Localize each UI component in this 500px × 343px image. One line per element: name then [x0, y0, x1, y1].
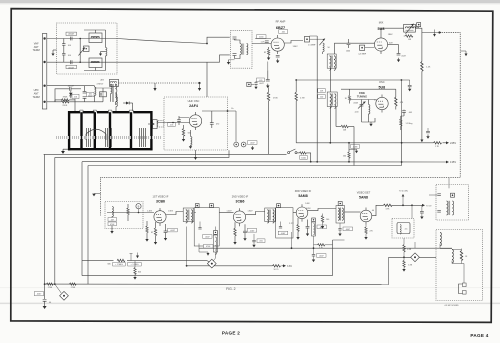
stub arrow under junction — [434, 30, 436, 35]
svg-text:220K: 220K — [62, 105, 67, 107]
UHF terminal dot lower — [43, 101, 45, 103]
wire plate t3 — [308, 209, 336, 211]
svg-text:500V: 500V — [88, 96, 93, 98]
mixer plate coil box — [404, 24, 419, 32]
wire UHF terminal bottom — [47, 101, 61, 103]
svg-text:4-30: 4-30 — [355, 111, 359, 113]
bus line 135V — [82, 161, 446, 163]
label TO 4.5MC arrow up — [402, 197, 404, 206]
svg-text:.0047: .0047 — [401, 55, 406, 57]
arrow stub x135 — [137, 253, 139, 256]
RF transformer primary coil — [240, 44, 241, 55]
svg-text:.00047: .00047 — [67, 86, 74, 88]
svg-text:1.5 MMF: 1.5 MMF — [308, 44, 316, 46]
electrolytic on bus — [253, 234, 255, 240]
wire plate t1 — [166, 212, 183, 215]
wire tuner to UHF osc — [157, 122, 189, 124]
svg-text:TERM: TERM — [33, 49, 40, 52]
cathode cap — [276, 56, 280, 58]
B+ bus 245V — [296, 142, 433, 144]
resistor 270K b — [70, 283, 77, 285]
tall dashed box sound IF — [436, 230, 483, 301]
boxed label .0047 bottom — [34, 292, 44, 296]
ground UHF osc — [189, 145, 192, 149]
sound coil 2 — [452, 201, 453, 215]
svg-text:1.80V: 1.80V — [248, 211, 254, 213]
injection box — [360, 45, 365, 50]
wire bottom jog to RF transformer — [207, 55, 230, 62]
svg-text:2AF4: 2AF4 — [189, 104, 198, 108]
label slug — [204, 244, 214, 248]
svg-text:TO V2: TO V2 — [426, 206, 431, 208]
AGC resistor — [127, 208, 129, 215]
resistor inline AGC bus — [273, 265, 281, 267]
svg-text:PAGE 2: PAGE 2 — [222, 330, 240, 335]
balun divider cap upper — [63, 39, 65, 44]
label .0047 t2 — [247, 229, 256, 233]
slug return x314 with cap — [313, 236, 315, 255]
det load resistor — [383, 204, 392, 206]
tuning shaft gray band — [56, 136, 161, 139]
svg-text:TUNING: TUNING — [357, 94, 367, 98]
svg-text:4 SECT: 4 SECT — [97, 83, 105, 85]
svg-text:470K: 470K — [110, 224, 115, 226]
svg-text:100: 100 — [326, 219, 329, 221]
arrow into connector — [148, 123, 152, 125]
AGC bus 3.6V — [187, 265, 273, 267]
marker square T1 — [195, 204, 199, 208]
trap dashed box 4.5MC — [392, 219, 414, 239]
neutralizing box — [305, 36, 310, 42]
marker square grid feed — [247, 82, 251, 86]
VHF terminal dot lower — [43, 61, 45, 63]
svg-text:.0047: .0047 — [250, 230, 255, 232]
cap .005 osc — [402, 111, 406, 113]
wire balun internal lower — [95, 68, 97, 71]
det peaking cap — [420, 212, 424, 214]
svg-text:1.80V: 1.80V — [168, 210, 174, 212]
UHF mixer coil — [95, 87, 96, 95]
bus line 1 with corner — [44, 153, 287, 155]
stub up x124 — [130, 254, 132, 261]
svg-text:5AM8: 5AM8 — [298, 194, 307, 198]
wire plate RF — [284, 41, 303, 44]
mixer grid cap — [347, 43, 351, 45]
AGC cap boxed label — [108, 218, 117, 222]
svg-text:.0068: .0068 — [353, 102, 358, 104]
svg-text:.0047: .0047 — [319, 255, 324, 257]
svg-text:100Ω: 100Ω — [301, 158, 306, 160]
svg-text:UHF OSC: UHF OSC — [188, 99, 200, 103]
tuner right connector — [153, 120, 158, 129]
tube V6 second IF — [233, 208, 245, 226]
transformer terminal caps — [233, 36, 237, 38]
resistor 820 below AGC line — [134, 261, 136, 268]
bottom left cluster wire — [45, 283, 389, 286]
resistor 220K UHF — [61, 101, 69, 103]
cathode res t3 — [297, 225, 299, 232]
svg-text:270K: 270K — [71, 287, 76, 289]
ground transformer — [227, 60, 230, 65]
cap label 10 1000 left — [257, 35, 267, 39]
svg-text:2.2V: 2.2V — [289, 223, 294, 225]
resistor 2.7M vertical — [295, 92, 297, 101]
mixer cathode cap .0047 — [397, 54, 401, 56]
svg-text:.005: .005 — [408, 112, 412, 114]
svg-text:3CB6: 3CB6 — [236, 199, 245, 203]
diagonal to diamond lower — [55, 284, 61, 293]
svg-text:140V: 140V — [305, 203, 310, 205]
plate coil RF — [323, 43, 324, 52]
resistor 56K inline — [117, 259, 125, 261]
ground trap return — [402, 269, 405, 272]
svg-text:.0047: .0047 — [170, 230, 175, 232]
resistor 390K above tuner — [62, 99, 70, 101]
svg-text:100: 100 — [68, 55, 71, 57]
svg-text:.00047: .00047 — [68, 33, 75, 35]
svg-text:390K: 390K — [63, 97, 68, 99]
scan artifact gray line lower — [0, 303, 500, 305]
tuner gang capacitor plates 1 — [87, 128, 91, 147]
scan artifact faint line upper — [0, 286, 500, 289]
vertical with resistor 1.5K — [421, 33, 423, 62]
svg-text:820: 820 — [138, 272, 141, 274]
wire UHF osc plate out — [202, 110, 236, 112]
mechanical gang dotted link — [119, 82, 200, 84]
sound takeoff line to page 4 — [389, 256, 436, 258]
capacitor C2 on bottom wire — [66, 60, 77, 68]
svg-text:MIX: MIX — [379, 20, 384, 24]
resistor beside slug — [322, 214, 324, 216]
vertical x401 — [401, 116, 403, 166]
shield dotted line right vertical — [459, 33, 461, 178]
resistor 82 cathode — [267, 49, 269, 55]
wire balun internal upper — [95, 30, 97, 33]
AGC dashed box — [105, 202, 143, 229]
wire row B — [296, 79, 410, 81]
vertical to connector — [462, 264, 465, 284]
screen cap t3 — [306, 227, 310, 229]
tuner terminal notches — [80, 110, 133, 112]
trimmer arrow — [319, 39, 325, 46]
tube V7 third IF — [296, 204, 308, 221]
label .0047 in assembly — [203, 235, 213, 239]
connector bracket squares — [459, 284, 463, 294]
wire mixer grid — [365, 47, 375, 49]
bus line 4 — [88, 165, 402, 167]
sound takeoff dashed box — [436, 185, 469, 221]
svg-text:OSC: OSC — [379, 80, 385, 84]
marker square sound — [451, 193, 455, 197]
junction top wire — [206, 43, 208, 45]
svg-text:4.5 MC SOUND: 4.5 MC SOUND — [444, 305, 459, 307]
arrow to video amp — [412, 204, 422, 206]
cap right UHF osc — [210, 123, 214, 125]
svg-text:30V: 30V — [389, 42, 393, 44]
resistor 270K vertical — [267, 92, 269, 101]
svg-text:VIDEO DET: VIDEO DET — [357, 192, 371, 195]
cap box above tuner left — [72, 94, 79, 98]
coil above tuner — [116, 97, 117, 107]
svg-text:1.5 Meg: 1.5 Meg — [406, 123, 413, 125]
screen return x291 — [291, 232, 293, 248]
svg-text:180V: 180V — [388, 34, 393, 36]
svg-text:135V: 135V — [450, 160, 456, 164]
UHF osc coil — [191, 137, 192, 146]
cap under T3 — [339, 223, 341, 229]
VHF osc coil top — [110, 79, 119, 86]
transformer core lines — [242, 44, 244, 55]
resistor 1K osc — [348, 96, 350, 101]
wire top to RF transformer — [207, 37, 230, 43]
svg-text:5AN8: 5AN8 — [359, 196, 368, 200]
RF interstage transformer upper — [327, 54, 336, 70]
vertical wire RF down — [267, 70, 269, 79]
svg-text:470: 470 — [216, 124, 219, 126]
label .0047 slug return — [317, 254, 327, 258]
vertical wire x330 — [329, 68, 331, 92]
boxed label 1 MEG — [113, 262, 126, 266]
junction dots AGC bus — [186, 265, 188, 267]
cap in assembly — [198, 228, 201, 230]
svg-text:PAGE 4: PAGE 4 — [470, 333, 488, 338]
label .0047 assembly 2 — [278, 231, 288, 235]
diode UHF mixer — [69, 90, 73, 98]
svg-text:100: 100 — [320, 97, 323, 99]
svg-text:.0068: .0068 — [353, 146, 358, 148]
resistor 4.7K to sound line — [314, 244, 318, 246]
coil slug vertical — [312, 222, 316, 236]
cathode res t2 — [234, 228, 236, 236]
svg-text:560: 560 — [343, 155, 346, 157]
tube V3 oscillator — [376, 95, 388, 113]
shield dotted line long horizontal — [101, 177, 461, 179]
AGC takeoff line — [82, 260, 207, 262]
balun divider cap lower — [62, 54, 65, 56]
resistor UHF osc — [182, 129, 184, 137]
svg-text:185V: 185V — [306, 208, 311, 210]
stub into sound box left — [429, 194, 437, 196]
label 100 ohm — [300, 156, 308, 160]
svg-text:.047: .047 — [110, 219, 114, 221]
osc grid coil — [369, 105, 370, 115]
cap .005 lower right — [426, 131, 430, 133]
matching unit box center — [84, 46, 90, 52]
tube V2 mixer — [374, 35, 387, 54]
svg-text:.0047: .0047 — [281, 233, 286, 235]
tube V8 video det — [360, 208, 372, 225]
scanner top gray strip — [0, 0, 500, 3]
label .0047 T3 — [343, 227, 353, 231]
osc bottom wire — [362, 118, 376, 122]
label .005 bus — [257, 239, 265, 243]
IF transformer T2 — [265, 208, 276, 223]
stub into sound box — [448, 178, 450, 188]
shield dotted line top run — [441, 32, 461, 34]
svg-text:+ .5 MEG: + .5 MEG — [130, 264, 139, 266]
svg-text:3CB6: 3CB6 — [156, 199, 165, 203]
marker square T2 — [277, 204, 281, 208]
trap return vertical — [403, 238, 405, 245]
tuner gang capacitor plates 2 — [106, 128, 112, 147]
svg-text:5U8: 5U8 — [379, 86, 386, 90]
fine tuning trimmer — [360, 105, 364, 107]
B plus bus lower — [199, 247, 452, 249]
svg-text:.005: .005 — [259, 241, 263, 243]
diamond test point mid — [207, 259, 216, 268]
gang arrow left — [154, 83, 156, 88]
tube V1 RF amp — [271, 35, 284, 54]
diode row — [123, 102, 133, 105]
boxed label mixer xfmr b — [318, 95, 326, 99]
wire mixer plate up — [381, 28, 404, 35]
UHF osc dashed box — [164, 97, 228, 150]
marker square M — [417, 23, 421, 27]
resistor trap return — [403, 260, 405, 267]
RF input transformer dashed box — [231, 31, 253, 68]
cap on sound box edge upper — [437, 193, 441, 195]
RF bypass cluster below — [257, 78, 265, 82]
svg-text:82: 82 — [151, 232, 153, 234]
svg-text:2.7M: 2.7M — [300, 97, 305, 99]
cap UHF osc grid — [177, 120, 181, 122]
svg-text:FIG. 2: FIG. 2 — [226, 287, 236, 291]
svg-text:1.2K: 1.2K — [260, 42, 265, 44]
svg-text:.001: .001 — [74, 96, 78, 98]
UHF osc output stub down — [195, 150, 197, 157]
svg-text:1ST VIDEO IF: 1ST VIDEO IF — [153, 195, 169, 198]
arrow through coil — [406, 24, 414, 34]
grid cap box .001 — [279, 30, 288, 34]
resistor under coil — [405, 35, 413, 37]
balun dashed box — [57, 23, 118, 74]
svg-text:1.40V: 1.40V — [227, 211, 233, 213]
marker square T3 — [338, 202, 342, 206]
svg-text:4.5: 4.5 — [405, 229, 408, 231]
label VHF ANT TERM — [33, 42, 40, 52]
wire T3 out — [345, 211, 361, 213]
test point circle B — [241, 142, 246, 147]
VHF terminal dot upper — [43, 37, 45, 39]
IF transformer T1 — [183, 208, 194, 223]
bus line 2 — [55, 150, 229, 157]
svg-text:.40: .40 — [371, 210, 374, 212]
resistor 270K a — [47, 283, 54, 285]
shield ground arrow — [460, 51, 466, 54]
svg-text:56 70: 56 70 — [274, 269, 279, 271]
UHF terminal dot upper — [43, 85, 45, 87]
coil top of tall box — [440, 233, 441, 246]
ground lug balun — [51, 50, 54, 56]
resistor 1.5Meg — [400, 119, 402, 126]
svg-text:1.40V: 1.40V — [147, 210, 153, 212]
wire down to UHF tuner arrow — [206, 62, 208, 97]
svg-text:.0047: .0047 — [37, 294, 42, 296]
svg-text:130V: 130V — [293, 46, 299, 48]
cap box .005 — [168, 123, 176, 127]
svg-text:+ 1 MEG: + 1 MEG — [115, 264, 123, 266]
diamond test point lower — [60, 291, 69, 300]
vertical from T1 down — [186, 227, 188, 266]
label .0047 t1 — [168, 228, 178, 232]
crystal box 1N82 — [100, 92, 107, 97]
svg-text:.0047: .0047 — [250, 143, 255, 145]
tube V5 first IF — [154, 208, 166, 226]
wire antenna bottom — [47, 61, 207, 63]
wire coil output right — [415, 28, 439, 32]
wire plate t2 — [246, 212, 265, 215]
dashed label box right of tuner — [158, 121, 164, 127]
ground osc — [369, 122, 372, 126]
svg-text:6BZ7: 6BZ7 — [276, 26, 285, 30]
boxed label mixer xfmr a — [318, 89, 326, 93]
trap component — [397, 223, 410, 234]
vertical wire x55 long — [54, 157, 56, 284]
label 4700 slug — [317, 225, 327, 229]
tuner coupling arc — [86, 129, 106, 134]
svg-text:.00047: .00047 — [68, 68, 75, 70]
VHF antenna terminal strip — [42, 34, 46, 110]
ground RF cathode — [267, 56, 270, 60]
wire row C — [341, 88, 396, 90]
resistor 100 ohm inline — [300, 152, 307, 154]
wire top link row A — [110, 84, 112, 86]
corner stub with arrow — [199, 244, 208, 253]
ground on shield — [94, 193, 101, 195]
grid return res t1 — [146, 226, 148, 233]
capacitor .00047 UHF top — [70, 87, 72, 91]
vertical wire x82 — [81, 162, 83, 261]
capacitor C1 on top wire — [66, 32, 77, 40]
label test points — [248, 141, 258, 145]
det cathode resistor — [365, 225, 367, 227]
coil lower tall box — [452, 250, 453, 263]
AGC coil — [112, 207, 113, 217]
cathode resistor t1 — [154, 228, 156, 236]
IF transformer T3 — [336, 206, 345, 224]
capacitor pair 100 — [83, 92, 87, 94]
resistor 1.7K inline — [434, 142, 442, 144]
vertical wire x317 — [316, 36, 318, 162]
vertical wire x44 long — [44, 154, 46, 299]
sound coil 1 — [447, 201, 448, 215]
label FINE TUNING — [357, 91, 367, 98]
interlock switch — [288, 149, 297, 154]
svg-text:270K: 270K — [48, 287, 53, 289]
wire RF grid — [252, 43, 271, 45]
resistor in tall box — [460, 251, 462, 261]
wire osc grid row — [350, 99, 376, 101]
wire UHF terminal top — [47, 85, 95, 87]
svg-text:B: B — [138, 204, 140, 208]
cap in assembly 2 — [279, 227, 282, 229]
ground bottom cluster — [43, 306, 47, 309]
bypass cluster x349 — [348, 143, 350, 152]
screen cap t2 — [243, 231, 247, 233]
marker square slug — [312, 218, 316, 222]
balun output coil — [106, 48, 107, 56]
mixer interstage transformer lower — [327, 92, 337, 108]
marker square assembly — [210, 204, 214, 208]
ground balun output — [99, 52, 102, 56]
svg-text:3.6V: 3.6V — [287, 265, 292, 268]
wire T2 out — [293, 212, 297, 214]
svg-text:100: 100 — [68, 45, 71, 47]
vertical to test points — [235, 111, 237, 142]
svg-text:3RD VIDEO IF: 3RD VIDEO IF — [295, 190, 312, 193]
arrow adjust balun — [79, 48, 86, 56]
svg-text:.0047: .0047 — [259, 83, 264, 85]
